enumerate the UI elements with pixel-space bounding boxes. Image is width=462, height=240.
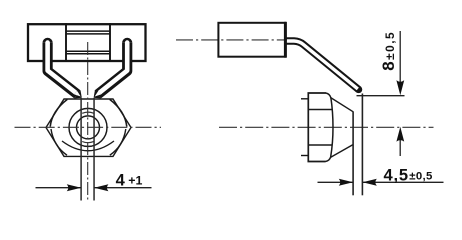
block inner double line lower [66,50,110,52]
hex nut outline (front view) [46,99,131,156]
horizontal centerline (right view nut axis) [219,126,434,128]
nut side view: cone bottom slant [330,145,353,158]
left spring clip [43,38,82,99]
nut chamfer arc bottom face [62,141,114,151]
block inner vertical right [109,23,111,62]
svg-text:4: 4 [116,172,126,190]
nut side view: left stub bottom [301,155,308,157]
hole chamfer circle [69,108,107,146]
nut side view: left stub top [301,98,308,100]
shaft line left [80,98,82,201]
svg-text:+1: +1 [128,174,142,188]
horizontal centerline (left view nut axis) [15,126,162,128]
nut chamfer arc bottom-left [51,129,67,155]
thread dashed circle arcs [82,112,93,113]
nut side view: prism outline [308,93,326,162]
nut chamfer arc top-right [110,99,127,126]
nut side view: cone top slant [331,98,354,112]
dim 4,5: dimension line right segment with arrow [363,181,444,183]
nut side view: barrel curve [326,93,334,162]
svg-text:4,5: 4,5 [384,166,409,184]
dim 4,5: dimension line left segment with arrow [318,181,354,183]
centerline: body axis (right view) [176,39,287,41]
right spring clip [94,38,133,99]
block inner vertical left [65,23,67,62]
body rectangle (right view) [218,23,285,57]
tab left edge [352,112,354,196]
dim 8: up arrow to nut axis [399,136,401,156]
dim 8: vertical line with down arrow [399,31,401,89]
block inner double line upper [66,30,110,32]
vertical centerline (left view) [87,42,89,201]
hole inner circle [77,116,100,139]
dim 4+1: dimension line right segment with arrow [95,187,152,189]
dim 4+1: dimension line left segment with arrow [36,187,82,189]
extension line at lever tip [357,95,405,97]
nut chamfer arc bottom-right [110,129,126,155]
nut chamfer arc top-left [50,99,67,126]
nut side view: facet line upper [308,109,331,111]
body right edge thick [284,22,287,58]
nut side view: facet line lower [308,144,331,146]
wire lever arm (right view, black outline with white core) [286,41,362,93]
block outer rect (left view) [28,24,146,61]
shaft line right [93,98,95,201]
svg-text:±0,5: ±0,5 [409,171,433,183]
svg-text:8±0,5: 8±0,5 [379,31,398,71]
tab right edge [361,94,363,196]
